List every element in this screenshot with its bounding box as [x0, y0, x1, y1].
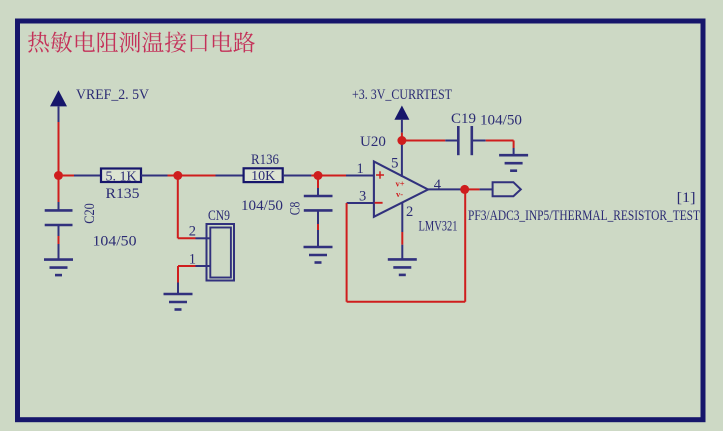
svg-text:LMV321: LMV321 — [419, 219, 458, 235]
svg-text:C8: C8 — [288, 202, 304, 216]
svg-text:CN9: CN9 — [208, 208, 230, 224]
svg-text:2: 2 — [189, 223, 196, 239]
svg-text:104/50: 104/50 — [241, 198, 283, 214]
svg-text:C19: C19 — [451, 111, 476, 127]
svg-text:v+: v+ — [395, 179, 404, 189]
svg-text:v-: v- — [396, 189, 403, 199]
svg-text:R136: R136 — [251, 152, 279, 168]
svg-text:C20: C20 — [82, 203, 98, 224]
svg-text:104/50: 104/50 — [480, 113, 522, 129]
svg-text:U20: U20 — [360, 134, 386, 150]
svg-text:VREF_2. 5V: VREF_2. 5V — [76, 87, 149, 103]
svg-text:2: 2 — [406, 204, 413, 220]
svg-text:1: 1 — [357, 161, 364, 177]
svg-text:1: 1 — [189, 251, 196, 267]
svg-text:5. 1K: 5. 1K — [105, 169, 136, 184]
svg-text:+3. 3V_CURRTEST: +3. 3V_CURRTEST — [352, 87, 452, 103]
svg-text:[1]: [1] — [677, 190, 696, 206]
svg-text:4: 4 — [434, 177, 442, 193]
svg-text:R135: R135 — [106, 186, 140, 202]
svg-text:PF3/ADC3_INP5/THERMAL_RESISTOR: PF3/ADC3_INP5/THERMAL_RESISTOR_TEST — [468, 208, 700, 224]
svg-text:3: 3 — [359, 188, 366, 204]
svg-text:10K: 10K — [251, 169, 275, 184]
svg-text:5: 5 — [391, 155, 399, 171]
svg-text:104/50: 104/50 — [93, 234, 137, 250]
